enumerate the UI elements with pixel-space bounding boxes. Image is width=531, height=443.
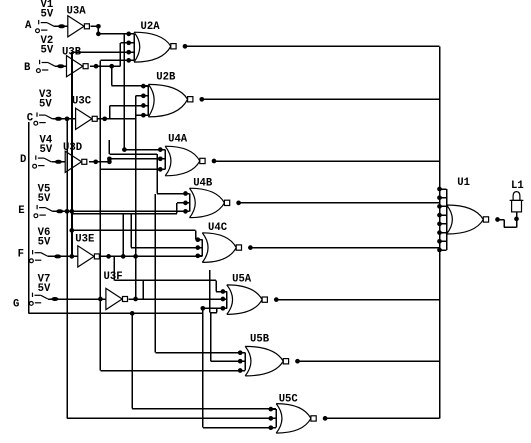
svg-text:A: A bbox=[25, 20, 32, 32]
svg-text:U3C: U3C bbox=[72, 95, 92, 107]
svg-text:U3A: U3A bbox=[67, 6, 87, 18]
svg-text:5V: 5V bbox=[38, 283, 51, 295]
svg-text:U3F: U3F bbox=[104, 271, 123, 283]
svg-text:U5A: U5A bbox=[232, 274, 252, 286]
svg-text:5V: 5V bbox=[40, 144, 53, 156]
svg-text:U2A: U2A bbox=[141, 21, 161, 33]
svg-text:G: G bbox=[13, 298, 19, 310]
svg-text:5V: 5V bbox=[41, 45, 54, 57]
svg-text:F: F bbox=[18, 248, 24, 260]
svg-text:U4C: U4C bbox=[208, 222, 228, 234]
svg-text:E: E bbox=[18, 205, 24, 217]
svg-text:U2B: U2B bbox=[156, 72, 176, 84]
svg-text:D: D bbox=[20, 154, 26, 166]
svg-text:U4B: U4B bbox=[193, 177, 213, 189]
svg-text:U3B: U3B bbox=[62, 46, 82, 58]
svg-text:5V: 5V bbox=[41, 8, 54, 20]
svg-text:5V: 5V bbox=[38, 237, 51, 249]
svg-text:U3D: U3D bbox=[63, 142, 82, 154]
svg-text:U5B: U5B bbox=[250, 334, 270, 346]
svg-text:5V: 5V bbox=[38, 193, 51, 205]
svg-text:B: B bbox=[24, 62, 31, 74]
svg-text:U4A: U4A bbox=[168, 134, 188, 146]
svg-text:L1: L1 bbox=[511, 180, 524, 192]
svg-text:5V: 5V bbox=[39, 99, 52, 111]
svg-text:U3E: U3E bbox=[75, 233, 94, 245]
svg-text:C: C bbox=[27, 113, 34, 125]
svg-text:U5C: U5C bbox=[279, 393, 299, 405]
svg-text:U1: U1 bbox=[457, 177, 470, 189]
